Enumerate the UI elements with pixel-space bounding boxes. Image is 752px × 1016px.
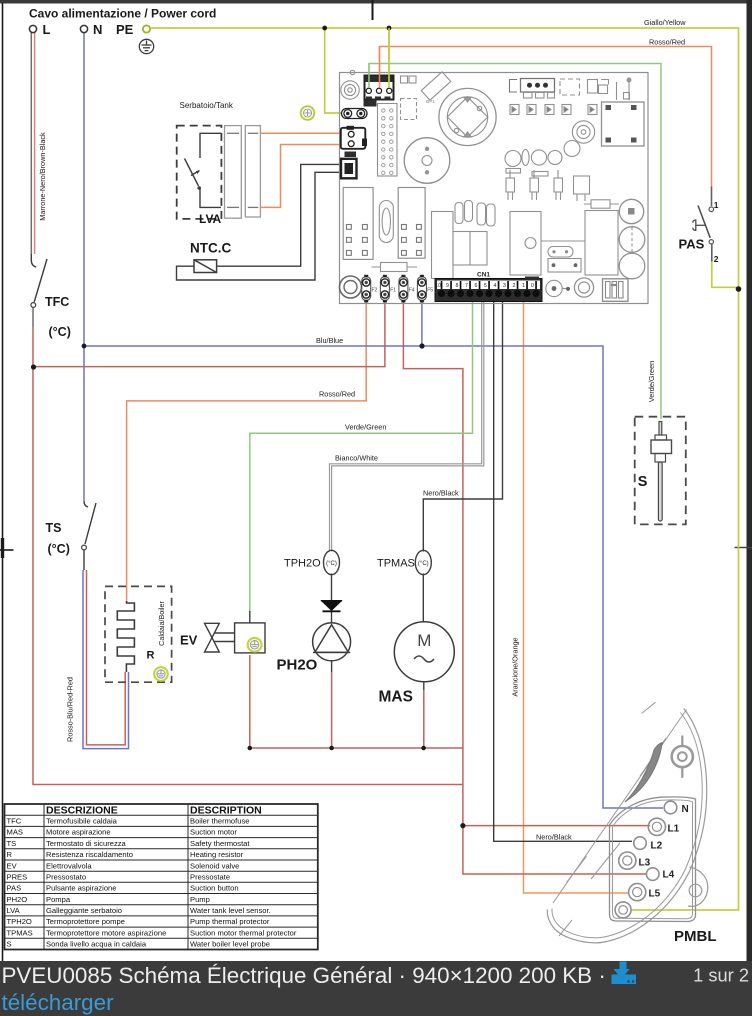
svg-text:Heating resistor: Heating resistor — [190, 850, 244, 859]
earth symbol in R box — [154, 667, 168, 681]
tank plates — [225, 126, 261, 219]
earth symbol near PCB — [301, 106, 315, 120]
svg-text:Rosso/Red: Rosso/Red — [319, 390, 355, 399]
svg-text:5: 5 — [484, 283, 487, 289]
svg-text:LVA: LVA — [7, 906, 21, 915]
wire TS pair blue — [83, 570, 129, 749]
svg-text:TPH2O: TPH2O — [284, 558, 321, 570]
svg-text:Giallo/Yellow: Giallo/Yellow — [644, 18, 686, 27]
svg-text:1: 1 — [522, 283, 525, 289]
svg-text:6: 6 — [475, 283, 478, 289]
PMBL top screw — [672, 736, 693, 778]
svg-text:L4: L4 — [663, 870, 675, 881]
diagonal component — [421, 72, 451, 100]
svg-text:10: 10 — [435, 283, 441, 289]
svg-text:TPH2O: TPH2O — [7, 917, 32, 926]
wire PAS pin2 yellow to right edge — [712, 262, 738, 288]
svg-text:Termoprotettore pompe: Termoprotettore pompe — [46, 917, 125, 926]
svg-text:9: 9 — [446, 283, 449, 289]
S water level probe — [651, 422, 672, 522]
svg-text:(°C): (°C) — [418, 561, 429, 567]
legend table grid — [5, 804, 318, 950]
small component cluster — [588, 80, 609, 94]
TFC switch — [31, 254, 47, 307]
junction MAS on red bus — [421, 746, 426, 751]
svg-text:Cavo alimentazione / Power cor: Cavo alimentazione / Power cord — [29, 7, 216, 21]
PMBL terminal plate — [610, 797, 696, 922]
fuse F4 — [399, 275, 408, 303]
wire diode to PH2O — [331, 611, 333, 623]
wire F1 red to L junction — [34, 300, 385, 367]
R heating resistor dashed box Caldaia/Boiler — [105, 586, 172, 682]
svg-text:Rosso-Blu/Red-Red: Rosso-Blu/Red-Red — [66, 677, 75, 742]
viewer bottom bar — [0, 961, 752, 1016]
svg-text:PAS: PAS — [679, 237, 705, 252]
terminal L2 — [634, 837, 647, 850]
svg-text:PH2O: PH2O — [277, 657, 318, 674]
svg-text:EV: EV — [7, 861, 18, 870]
wire NTC left lead — [177, 172, 343, 280]
big relay top right — [602, 102, 645, 146]
svg-text:(°C): (°C) — [326, 561, 337, 567]
resistor R meander — [117, 601, 134, 672]
junction L red and F1 red horizontal — [31, 364, 36, 369]
svg-text:TFC: TFC — [7, 817, 22, 826]
svg-text:Pump: Pump — [190, 895, 210, 904]
svg-text:PAS: PAS — [7, 884, 22, 893]
svg-text:7: 7 — [465, 283, 468, 289]
svg-text:L3: L3 — [639, 858, 651, 869]
bottom-left big circle — [340, 276, 362, 298]
svg-text:Nero/Black: Nero/Black — [536, 832, 572, 841]
MAS suction motor — [394, 622, 454, 682]
svg-text:MAS: MAS — [7, 828, 23, 837]
LVA float switch — [185, 133, 222, 207]
svg-text:PH2O: PH2O — [7, 895, 28, 904]
svg-text:Elettrovalvola: Elettrovalvola — [46, 861, 92, 870]
PMBL flange inner rim — [552, 713, 702, 938]
wire TS pair red — [87, 570, 126, 745]
svg-text:TFC: TFC — [45, 295, 69, 309]
wire blue horizontal to PMBL N — [84, 346, 663, 808]
junction F5 blue and blue horizontal — [419, 343, 424, 348]
junction yellow line to PCB fuse branch — [322, 26, 327, 31]
svg-text:S: S — [7, 940, 12, 949]
svg-text:DESCRIPTION: DESCRIPTION — [190, 804, 262, 816]
small squares top — [401, 76, 408, 83]
rect with dots — [548, 259, 581, 273]
svg-text:Pressostate: Pressostate — [190, 873, 230, 882]
dashed square — [560, 79, 580, 95]
terminal N — [80, 25, 87, 32]
left middle registration tick — [0, 549, 14, 551]
wire F5 blue down — [421, 300, 423, 346]
svg-text:(°C): (°C) — [49, 325, 71, 339]
svg-text:DESCRIZIONE: DESCRIZIONE — [46, 804, 118, 816]
svg-text:F1: F1 — [390, 288, 396, 294]
wire LVA red upper to PCB — [260, 132, 341, 134]
wire MAS black stub — [423, 682, 425, 691]
wire CN1 white pair inner — [332, 301, 484, 552]
fuse holder F8 black tab — [364, 101, 377, 107]
svg-text:PE: PE — [116, 22, 134, 37]
ring — [574, 278, 593, 297]
wire TFC lower stub gray — [32, 308, 34, 327]
svg-text:Water boiler level probe: Water boiler level probe — [190, 940, 270, 949]
svg-text:télécharger: télécharger — [2, 990, 115, 1015]
wire L brown-black pair: gray — [30, 33, 32, 255]
top center registration tick — [372, 0, 374, 20]
heatsink rect — [510, 212, 541, 276]
svg-text:N: N — [682, 804, 689, 815]
TS switch — [82, 501, 96, 570]
mid coax circle — [572, 121, 594, 143]
viewer top strip — [0, 0, 752, 4]
diode — [321, 601, 342, 612]
svg-text:L2: L2 — [651, 841, 663, 852]
PCB board outline — [340, 73, 649, 304]
wire TPH2O to diode — [331, 574, 333, 601]
svg-text:Sonda livello acqua in caldaia: Sonda livello acqua in caldaia — [46, 940, 147, 949]
drawing frame left border — [2, 3, 4, 961]
PMBL bottom-right tab — [688, 867, 708, 906]
wire N blue down — [83, 33, 85, 347]
junction PH2O on red bus — [329, 746, 334, 751]
svg-text:R: R — [7, 850, 13, 859]
small black part — [345, 152, 357, 158]
junction yellow line to connector pin3 — [387, 26, 392, 31]
svg-text:BP1: BP1 — [426, 99, 435, 105]
PMBL dark slot crescent — [625, 743, 662, 803]
LVA dashed box — [177, 126, 222, 219]
wire CN1 green to EV — [250, 301, 473, 612]
svg-text:Motore aspirazione: Motore aspirazione — [46, 828, 111, 837]
legend rows — [7, 817, 297, 949]
relay bottom-left 2 — [398, 188, 425, 259]
terminal L — [29, 25, 36, 32]
PAS suction button switch — [693, 187, 714, 262]
S probe dashed box — [635, 417, 686, 525]
small coax bottom — [546, 280, 562, 296]
svg-text:Marrone-Nero/Brown-Black: Marrone-Nero/Brown-Black — [38, 132, 47, 221]
center tall rect — [585, 211, 618, 276]
svg-text:8: 8 — [456, 283, 459, 289]
svg-text:N: N — [93, 22, 102, 37]
terminal N — [664, 801, 677, 814]
wire F4 red down right to PMBL L4 — [403, 300, 647, 874]
horizontal resistor — [372, 266, 418, 268]
svg-text:Galleggiante serbatoio: Galleggiante serbatoio — [46, 906, 122, 915]
CN1 connector — [435, 272, 542, 302]
wire yellow branch to PCB fuse — [325, 28, 342, 113]
fuse F8 — [342, 109, 368, 119]
CN column connector — [378, 104, 398, 177]
3-pin mains connector — [365, 76, 394, 100]
terminal earth — [615, 902, 631, 918]
svg-text:TS: TS — [46, 521, 62, 535]
svg-text:Nero/Black: Nero/Black — [423, 489, 459, 498]
svg-text:Pump thermal protector: Pump thermal protector — [190, 917, 270, 926]
relay bottom-left 1 — [343, 188, 373, 260]
connector K2 — [341, 126, 367, 149]
wire PH2O down to bus — [331, 672, 333, 748]
fuse F1 — [380, 275, 389, 303]
fuse F5 — [417, 275, 426, 303]
svg-text:Water tank level sensor.: Water tank level sensor. — [190, 906, 271, 915]
wire CN1 black to TPMAS — [423, 301, 502, 552]
PMBL hatch diagonals — [640, 738, 666, 776]
svg-text:Pulsante aspirazione: Pulsante aspirazione — [46, 884, 117, 893]
svg-text:Termostato di sicurezza: Termostato di sicurezza — [46, 839, 127, 848]
svg-text:Resistenza riscaldamento: Resistenza riscaldamento — [46, 850, 133, 859]
right middle registration tick — [735, 547, 752, 549]
wire MAS down to bus — [423, 690, 425, 748]
svg-text:Termofusibile caldaia: Termofusibile caldaia — [46, 817, 118, 826]
wire CN1 white pair outer — [330, 301, 482, 552]
svg-text:Pressostato: Pressostato — [46, 873, 86, 882]
svg-text:Safety thermostat: Safety thermostat — [190, 839, 250, 848]
wire labels — [38, 18, 686, 841]
PE earth symbol — [139, 39, 153, 53]
svg-text:EV: EV — [180, 633, 198, 648]
svg-text:Caldaia/Boiler: Caldaia/Boiler — [157, 601, 166, 646]
svg-text:Termoprotettore motore aspiraz: Termoprotettore motore aspirazione — [46, 928, 166, 937]
viewer right strip — [747, 0, 752, 961]
medium circle — [404, 138, 450, 184]
earth symbol in EV box — [248, 638, 262, 652]
wire L brown-black pair: red — [34, 33, 36, 255]
terminal L3 — [619, 852, 636, 869]
download icon — [612, 962, 637, 985]
svg-text:Pompa: Pompa — [46, 895, 71, 904]
svg-text:M: M — [417, 631, 431, 650]
transistor clusters — [506, 170, 590, 201]
svg-text:3: 3 — [503, 283, 506, 289]
top right connector with dots — [510, 79, 555, 99]
wire blue down to TS — [83, 346, 85, 501]
svg-text:LVA: LVA — [199, 212, 222, 226]
svg-text:PVEU0085 Schéma Électrique Gén: PVEU0085 Schéma Électrique Général · 940… — [2, 963, 606, 988]
connector K1 — [341, 159, 357, 179]
wire red into connector pin2 — [379, 47, 381, 89]
PMBL chord diagonal — [553, 710, 687, 904]
svg-text:L5: L5 — [649, 889, 661, 900]
wire green into connector pin1 — [368, 64, 370, 89]
electrolytic capacitors right — [619, 199, 643, 223]
wire EV down to bus — [249, 655, 251, 748]
double square — [453, 232, 487, 266]
junction PAS yellow to right edge earth wire — [736, 286, 742, 292]
capacitor circles row — [505, 141, 580, 177]
svg-text:L1: L1 — [668, 824, 680, 835]
svg-text:2: 2 — [513, 283, 516, 289]
fuse F2 — [362, 275, 371, 303]
svg-text:L: L — [43, 22, 51, 37]
svg-text:PRES: PRES — [7, 873, 28, 882]
wire PH2O black stub — [331, 661, 333, 672]
svg-text:Solenoid valve: Solenoid valve — [190, 861, 239, 870]
wire red top: connector pin2 to PAS pin1 — [380, 47, 712, 188]
stadium fuse between relays — [379, 201, 393, 243]
svg-text:F2: F2 — [372, 288, 378, 294]
svg-text:(°C): (°C) — [48, 542, 70, 556]
wire CN1 orange down to PMBL L5 — [524, 301, 629, 893]
DIP switch block — [603, 279, 629, 302]
PH2O pump — [313, 623, 351, 661]
svg-text:1: 1 — [714, 200, 719, 210]
terminal L1 — [648, 818, 665, 835]
big transformer circle — [439, 88, 496, 145]
terminal L5 — [629, 884, 646, 901]
wire red to PMBL L1 — [463, 825, 650, 827]
wire red bottom bus — [250, 747, 463, 749]
resistor top of this area — [584, 203, 619, 205]
svg-text:2: 2 — [714, 254, 719, 264]
svg-text:CN1: CN1 — [477, 272, 490, 279]
svg-text:S: S — [638, 474, 648, 490]
tall rect above CN1 — [432, 212, 454, 279]
svg-text:4: 4 — [494, 283, 497, 289]
svg-text:NTC.C: NTC.C — [190, 241, 231, 256]
wire LVA orange lower to PCB — [260, 145, 341, 208]
wire yellow into connector pin3 — [388, 28, 390, 88]
wire EV black stub — [249, 611, 251, 623]
svg-text:Boiler thermofuse: Boiler thermofuse — [190, 817, 250, 826]
wire green PCB border: connector pin1 around PCB down to S probe — [369, 64, 661, 420]
vertical caps — [455, 203, 463, 224]
svg-text:0: 0 — [531, 283, 534, 289]
svg-text:MAS: MAS — [379, 689, 413, 706]
terminal L4 — [646, 868, 659, 881]
wire CN1 black to PMBL L2 — [494, 301, 632, 841]
PMBL flange outer rim — [547, 709, 706, 943]
svg-text:1 sur 2: 1 sur 2 — [693, 965, 749, 986]
svg-text:F5: F5 — [427, 288, 433, 294]
wire TPMAS to MAS — [422, 574, 424, 623]
svg-text:TS: TS — [7, 839, 17, 848]
standing pins — [616, 82, 618, 100]
svg-text:Blu/Blue: Blu/Blue — [316, 336, 343, 345]
svg-text:PMBL: PMBL — [674, 928, 717, 945]
svg-text:F4: F4 — [409, 288, 415, 294]
junction EV on red bus — [248, 746, 253, 751]
wire L red: TFC to junction to bottom horizontal — [33, 327, 463, 785]
wire F2 orange to heating resistor R — [127, 300, 367, 601]
wire PE yellow main: PE terminal right, down right edge, to PMBL earth terminal — [151, 28, 739, 910]
svg-text:Suction motor thermal protecto: Suction motor thermal protector — [190, 928, 297, 937]
svg-text:Bianco/White: Bianco/White — [335, 454, 378, 463]
junction F4 red vertical and L1 horizontal — [460, 823, 465, 828]
svg-text:Suction button: Suction button — [190, 884, 239, 893]
oval component — [548, 247, 573, 258]
coax buzzer circle — [341, 81, 359, 99]
wire yellow branch to connector pin3 — [388, 28, 390, 76]
svg-text:Verde/Green: Verde/Green — [345, 423, 386, 432]
wire NTC right lead — [217, 164, 342, 266]
svg-text:Rosso/Red: Rosso/Red — [649, 38, 685, 47]
junction N blue vertical and blue horizontal — [82, 344, 87, 349]
svg-text:TPMAS: TPMAS — [377, 558, 415, 570]
svg-text:TPMAS: TPMAS — [7, 928, 33, 937]
row of 5 diode squares — [510, 105, 597, 115]
svg-text:R: R — [147, 650, 155, 662]
svg-text:Verde/Green: Verde/Green — [647, 361, 656, 402]
svg-text:Suction motor: Suction motor — [190, 828, 237, 837]
svg-text:Arancione/Orange: Arancione/Orange — [511, 637, 520, 696]
svg-text:Serbatoio/Tank: Serbatoio/Tank — [180, 101, 234, 110]
